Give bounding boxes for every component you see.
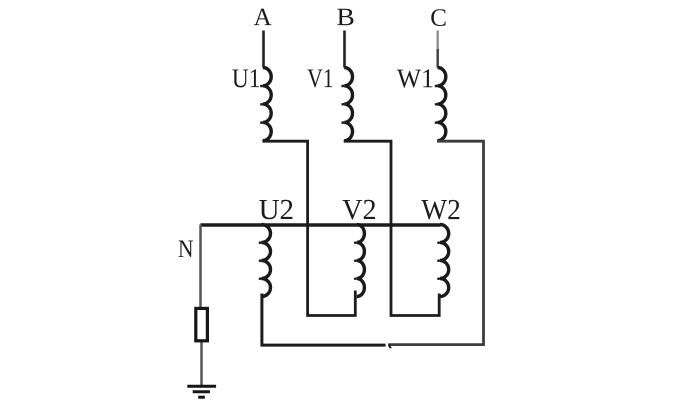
svg-text:V2: V2 bbox=[342, 194, 377, 226]
svg-text:B: B bbox=[336, 4, 355, 31]
svg-text:C: C bbox=[430, 5, 447, 32]
svg-text:W2: W2 bbox=[421, 194, 461, 226]
svg-text:N: N bbox=[178, 236, 194, 263]
svg-text:U1: U1 bbox=[232, 63, 261, 93]
svg-text:U2: U2 bbox=[259, 194, 295, 226]
svg-text:A: A bbox=[254, 4, 272, 31]
svg-text:V1: V1 bbox=[307, 63, 334, 93]
svg-text:W1: W1 bbox=[397, 63, 434, 93]
